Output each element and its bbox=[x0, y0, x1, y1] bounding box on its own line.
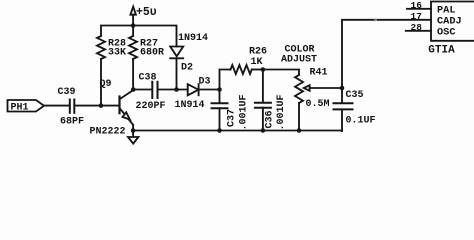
label GTIA bbox=[428, 44, 455, 56]
label 220PF bbox=[136, 101, 166, 112]
capacitor C37 bbox=[212, 90, 228, 132]
wire R26 node to R41 top bbox=[263, 70, 299, 76]
svg-text:1K: 1K bbox=[251, 57, 263, 68]
svg-text:R41: R41 bbox=[310, 68, 328, 79]
wire C37 node up to R26 bbox=[220, 70, 231, 90]
junction C37 node bbox=[217, 87, 222, 92]
svg-text:1N914: 1N914 bbox=[175, 100, 205, 111]
resistor R26 bbox=[231, 65, 263, 74]
junction C37/rail bbox=[217, 128, 222, 133]
svg-text:PH1: PH1 bbox=[11, 103, 29, 114]
power +5V symbol bbox=[130, 7, 136, 26]
wire PH1 to C39 bbox=[44, 105, 70, 107]
svg-text:C37: C37 bbox=[227, 109, 238, 127]
label +5v bbox=[136, 6, 157, 19]
diode D3 bbox=[188, 84, 199, 95]
wire C39 to Q9 base bbox=[74, 105, 119, 107]
label 68PF bbox=[60, 117, 84, 128]
label R26 bbox=[249, 47, 267, 58]
svg-text:ADJUST: ADJUST bbox=[281, 55, 317, 66]
svg-text:C35: C35 bbox=[346, 90, 364, 101]
label Q9 bbox=[100, 79, 112, 90]
label pin 17 bbox=[411, 11, 423, 22]
svg-text:D3: D3 bbox=[199, 77, 211, 88]
label pin 28 bbox=[411, 22, 423, 33]
junction collector node bbox=[131, 87, 136, 92]
junction ground node bbox=[131, 128, 136, 133]
capacitor C38 bbox=[152, 82, 157, 98]
pin 28 stub bbox=[406, 30, 431, 32]
junction top rail / R27 bbox=[131, 23, 136, 28]
svg-text:Q9: Q9 bbox=[100, 79, 112, 90]
label D2 bbox=[181, 63, 193, 74]
label OSC bbox=[437, 27, 456, 39]
label 0.5M bbox=[306, 99, 330, 110]
label pin 16 bbox=[411, 0, 423, 11]
wire pin17 CADJ to node bbox=[342, 18, 431, 88]
junction C36/rail bbox=[261, 128, 266, 133]
label 1K bbox=[251, 57, 263, 68]
node PH1 flag bbox=[8, 100, 45, 112]
capacitor C36 bbox=[255, 70, 271, 132]
svg-text:16: 16 bbox=[411, 0, 423, 11]
label R28 33K bbox=[108, 39, 126, 59]
wire D3 to C37 node bbox=[199, 89, 220, 91]
ground bbox=[128, 131, 138, 144]
label C35 bbox=[346, 90, 364, 101]
diode D2 bbox=[170, 47, 183, 90]
label 1N914 (D3) bbox=[175, 100, 205, 111]
junction wiper/C35/pin17 node bbox=[340, 86, 345, 91]
svg-text:680R: 680R bbox=[140, 48, 164, 59]
op chip U GTIA box bbox=[431, 2, 474, 41]
resistor R27 bbox=[129, 26, 137, 90]
junction R41/rail bbox=[297, 128, 302, 133]
resistor R28 bbox=[97, 36, 105, 59]
svg-text:1N914: 1N914 bbox=[178, 33, 208, 44]
wire collector node to C38 bbox=[133, 89, 152, 91]
label COLOR ADJUST bbox=[281, 45, 317, 66]
label R27 680R bbox=[140, 39, 164, 59]
svg-text:+5υ: +5υ bbox=[136, 6, 157, 19]
label C36 (rotated) bbox=[265, 110, 276, 128]
label 0.1UF bbox=[346, 116, 376, 127]
svg-text:C39: C39 bbox=[58, 87, 76, 98]
svg-text:68PF: 68PF bbox=[60, 117, 84, 128]
label R41 bbox=[310, 68, 328, 79]
capacitor C39 bbox=[70, 100, 75, 113]
svg-text:GTIA: GTIA bbox=[428, 44, 455, 56]
junction D2 node bbox=[174, 87, 179, 92]
svg-text:33K: 33K bbox=[108, 48, 126, 59]
junction R26/C36 node bbox=[261, 67, 266, 72]
svg-text:0.1UF: 0.1UF bbox=[346, 116, 376, 127]
label PN2222 bbox=[90, 127, 126, 138]
svg-text:28: 28 bbox=[411, 22, 423, 33]
label PH1 bbox=[11, 103, 29, 114]
svg-text:220PF: 220PF bbox=[136, 101, 166, 112]
svg-text:C36: C36 bbox=[265, 110, 276, 128]
label .001UF C36 (rotated) bbox=[276, 94, 287, 130]
svg-text:.001UF: .001UF bbox=[239, 94, 250, 130]
svg-text:17: 17 bbox=[411, 11, 423, 22]
junction C39/R28 bbox=[99, 103, 104, 108]
svg-text:0.5M: 0.5M bbox=[306, 99, 330, 110]
label C38 bbox=[139, 73, 157, 84]
svg-text:.001UF: .001UF bbox=[276, 94, 287, 130]
capacitor C35 bbox=[334, 88, 353, 131]
svg-text:C38: C38 bbox=[139, 73, 157, 84]
svg-text:PN2222: PN2222 bbox=[90, 127, 126, 138]
potentiometer R41 bbox=[295, 75, 342, 131]
wire top rail bbox=[101, 26, 177, 106]
label C39 bbox=[58, 87, 76, 98]
label C37 (rotated) bbox=[227, 109, 238, 127]
svg-text:OSC: OSC bbox=[437, 27, 456, 39]
label .001UF C37 (rotated) bbox=[239, 94, 250, 130]
transistor Q9 bbox=[120, 90, 134, 130]
svg-text:R26: R26 bbox=[249, 47, 267, 58]
label PAL bbox=[437, 5, 456, 17]
label D3 bbox=[199, 77, 211, 88]
label 1N914 (D2) bbox=[178, 33, 208, 44]
wire C38 to D3 bbox=[158, 89, 188, 91]
pin 16 stub bbox=[407, 8, 431, 10]
label CADJ bbox=[437, 16, 462, 28]
wire bottom ground rail bbox=[133, 130, 342, 132]
svg-text:D2: D2 bbox=[181, 63, 193, 74]
